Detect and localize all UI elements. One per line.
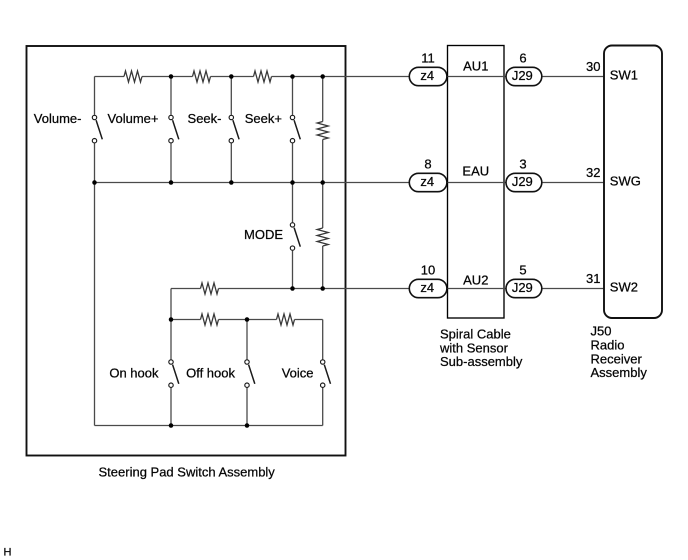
junction (top bus / Volume+ column) bbox=[169, 74, 174, 79]
svg-text:z4: z4 bbox=[420, 68, 434, 83]
svg-text:Steering Pad Switch Assembly: Steering Pad Switch Assembly bbox=[99, 464, 276, 479]
wire: second bus from left rail to connector z4 row 2 bbox=[95, 182, 409, 184]
svg-text:AU1: AU1 bbox=[463, 59, 488, 74]
svg-text:Sub-assembly: Sub-assembly bbox=[440, 354, 523, 369]
svg-text:z4: z4 bbox=[420, 174, 434, 189]
wire: Off hook column bbox=[246, 320, 248, 426]
resistor (phone bus, On hook to Off hook segment) bbox=[201, 314, 219, 325]
resistor (vertical, parallel with Seek+ switch) bbox=[317, 122, 328, 140]
svg-text:Volume+: Volume+ bbox=[108, 111, 159, 126]
svg-text:Off hook: Off hook bbox=[186, 365, 235, 380]
label: Volume+ bbox=[108, 111, 159, 126]
svg-text:Spiral Cable: Spiral Cable bbox=[440, 327, 511, 342]
label: J29 (row 2) bbox=[512, 174, 533, 189]
svg-text:AU2: AU2 bbox=[463, 273, 488, 288]
label: Steering Pad Switch Assembly bbox=[99, 464, 276, 479]
svg-text:H: H bbox=[4, 547, 12, 559]
label: Voice bbox=[282, 365, 314, 380]
switch: Voice bbox=[321, 360, 331, 388]
wire: Volume+ column bbox=[170, 77, 172, 183]
label: Spiral Cable with Sensor Sub-assembly bbox=[439, 327, 523, 370]
svg-text:On hook: On hook bbox=[109, 365, 159, 380]
svg-text:J29: J29 bbox=[512, 174, 533, 189]
svg-text:SW1: SW1 bbox=[610, 67, 638, 82]
wire: row 1 through spiral cable box bbox=[448, 76, 506, 78]
switch: Seek+ bbox=[290, 115, 300, 143]
pin number 3 bbox=[519, 156, 526, 171]
switch: On hook bbox=[169, 360, 179, 388]
junction (phone bus / On hook column) bbox=[169, 317, 174, 322]
pin number 5 bbox=[519, 262, 526, 277]
wire: top bus from left rail corner to connector z4 row 1 bbox=[95, 76, 409, 78]
svg-text:8: 8 bbox=[424, 156, 431, 171]
connector z4 pin 10 (oval) bbox=[409, 279, 447, 297]
svg-text:3: 3 bbox=[519, 156, 526, 171]
resistor (third bus) bbox=[201, 283, 219, 294]
Steering Pad Switch Assembly enclosure box bbox=[27, 46, 346, 456]
svg-text:Radio: Radio bbox=[591, 338, 625, 353]
label: Seek+ bbox=[245, 111, 282, 126]
junction (phone bus / Off hook column) bbox=[245, 317, 250, 322]
resistor (vertical, parallel with MODE switch) bbox=[317, 228, 328, 246]
pin number 30 bbox=[586, 59, 600, 74]
switch: Volume- bbox=[92, 115, 102, 143]
svg-text:SW2: SW2 bbox=[610, 279, 638, 294]
wire: bottom return bus bbox=[95, 425, 323, 427]
junction (top bus / Seek- column) bbox=[229, 74, 234, 79]
label: z4 (row 3) bbox=[420, 280, 434, 295]
terminal label AU2 bbox=[463, 273, 488, 288]
junction (second bus / Seek- column) bbox=[229, 180, 234, 185]
terminal label AU1 bbox=[463, 59, 488, 74]
junction (second bus / MODE column) bbox=[290, 180, 295, 185]
J50 Radio Receiver Assembly box bbox=[604, 46, 662, 319]
junction (top bus / Seek+ column) bbox=[290, 74, 295, 79]
label: J29 (row 3) bbox=[512, 280, 533, 295]
svg-text:Seek-: Seek- bbox=[188, 111, 222, 126]
svg-text:Assembly: Assembly bbox=[591, 365, 648, 380]
wire: left rail lower part (Volume- switch to bottom bus) bbox=[94, 143, 96, 425]
wire: J29 row 2 to J50 SWG bbox=[543, 182, 605, 184]
wire: MODE column (second bus to third bus) bbox=[292, 183, 294, 289]
junction (second bus / resistor rail) bbox=[320, 180, 325, 185]
junction (top bus / resistor rail) bbox=[320, 74, 325, 79]
pin number 11 bbox=[421, 50, 435, 65]
svg-text:J50: J50 bbox=[591, 324, 612, 339]
label: MODE bbox=[244, 227, 283, 242]
connector J29 pin 5 (oval) bbox=[506, 279, 542, 297]
label: J29 (row 1) bbox=[512, 68, 533, 83]
svg-text:Receiver: Receiver bbox=[591, 351, 643, 366]
connector J29 pin 6 (oval) bbox=[506, 67, 542, 85]
wire: On hook column bbox=[170, 320, 172, 426]
wire: resistor rail (top bus to third bus) bbox=[322, 77, 324, 289]
svg-text:5: 5 bbox=[519, 262, 526, 277]
svg-text:EAU: EAU bbox=[462, 164, 489, 179]
wire: Voice column bbox=[322, 320, 324, 426]
svg-text:SWG: SWG bbox=[610, 173, 641, 188]
svg-text:MODE: MODE bbox=[244, 227, 283, 242]
junction (second bus / Volume+ column) bbox=[169, 180, 174, 185]
wire: left rail upper part (to Volume- switch) bbox=[94, 77, 96, 115]
wire: row 2 through spiral cable box bbox=[448, 182, 506, 184]
page index marker H bbox=[4, 547, 12, 559]
wire: J29 row 3 to J50 SW2 bbox=[543, 288, 605, 290]
pin number 10 bbox=[421, 262, 435, 277]
svg-text:Voice: Voice bbox=[282, 365, 314, 380]
junction (bottom bus / Off hook column) bbox=[245, 423, 250, 428]
junction (third bus / resistor rail) bbox=[320, 286, 325, 291]
pin number 6 bbox=[519, 50, 526, 65]
terminal label SW1 bbox=[610, 67, 638, 82]
pin number 8 bbox=[424, 156, 431, 171]
wire: third bus to connector z4 row 3 bbox=[171, 288, 409, 290]
Spiral Cable with Sensor Sub-assembly box bbox=[448, 46, 505, 319]
label: Seek- bbox=[188, 111, 222, 126]
resistor (top bus, Volume- to Volume+ segment) bbox=[124, 71, 142, 82]
svg-text:6: 6 bbox=[519, 50, 526, 65]
junction (bottom bus / On hook column) bbox=[169, 423, 174, 428]
svg-text:Volume-: Volume- bbox=[34, 111, 82, 126]
svg-text:J29: J29 bbox=[512, 280, 533, 295]
svg-text:z4: z4 bbox=[420, 280, 434, 295]
svg-text:J29: J29 bbox=[512, 68, 533, 83]
switch: Volume+ bbox=[169, 115, 179, 143]
svg-text:10: 10 bbox=[421, 262, 435, 277]
svg-text:with Sensor: with Sensor bbox=[439, 340, 509, 355]
svg-text:11: 11 bbox=[421, 50, 435, 65]
svg-text:Seek+: Seek+ bbox=[245, 111, 282, 126]
terminal label SWG bbox=[610, 173, 641, 188]
pin number 31 bbox=[586, 271, 600, 286]
label: z4 (row 2) bbox=[420, 174, 434, 189]
wire: Seek+ column bbox=[292, 77, 294, 183]
switch: MODE bbox=[290, 223, 300, 251]
switch: Off hook bbox=[245, 360, 255, 388]
resistor (top bus, Volume+ to Seek- segment) bbox=[193, 71, 211, 82]
label: J50 Radio Receiver Assembly bbox=[591, 324, 648, 380]
connector z4 pin 11 (oval) bbox=[409, 67, 447, 85]
pin number 32 bbox=[586, 165, 600, 180]
wire: J29 row 1 to J50 SW1 bbox=[543, 76, 605, 78]
label: z4 (row 1) bbox=[420, 68, 434, 83]
connector z4 pin 8 (oval) bbox=[409, 173, 447, 191]
terminal label EAU bbox=[462, 164, 489, 179]
label: Volume- bbox=[34, 111, 82, 126]
label: On hook bbox=[109, 365, 159, 380]
junction (third bus / MODE column) bbox=[290, 286, 295, 291]
wire: Seek- column bbox=[230, 77, 232, 183]
wire: row 3 through spiral cable box bbox=[448, 288, 506, 290]
resistor (top bus, Seek- to Seek+ segment) bbox=[254, 71, 272, 82]
svg-text:30: 30 bbox=[586, 59, 600, 74]
switch: Seek- bbox=[229, 115, 239, 143]
wire: link from third bus to phone bus bbox=[170, 289, 172, 320]
junction (second bus / left rail) bbox=[92, 180, 97, 185]
svg-text:31: 31 bbox=[586, 271, 600, 286]
svg-text:32: 32 bbox=[586, 165, 600, 180]
label: Off hook bbox=[186, 365, 235, 380]
terminal label SW2 bbox=[610, 279, 638, 294]
connector J29 pin 3 (oval) bbox=[506, 173, 542, 191]
wire: phone branch bus bbox=[171, 319, 323, 321]
resistor (phone bus, Off hook to Voice segment) bbox=[277, 314, 295, 325]
